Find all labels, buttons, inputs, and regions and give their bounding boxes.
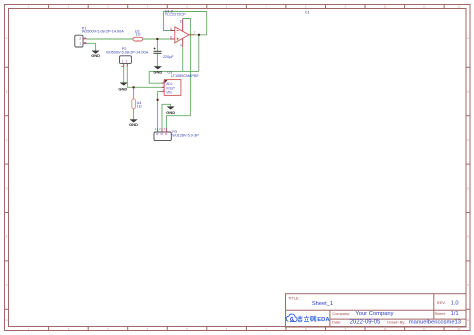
- resistor U4: [132, 99, 136, 109]
- svg-text:G: G: [6, 319, 8, 322]
- ground right of P3: [166, 107, 175, 115]
- svg-text:WJ128V-5.0-3P: WJ128V-5.0-3P: [172, 133, 199, 137]
- svg-text:EDA: EDA: [317, 317, 330, 323]
- svg-text:1Ω: 1Ω: [137, 105, 142, 109]
- wire P3 pin2 to ground: [162, 104, 171, 128]
- resistor U2: [133, 37, 143, 41]
- svg-text:GND: GND: [129, 122, 138, 127]
- wire capacitor to ground: [156, 53, 158, 66]
- svg-text:Company:: Company:: [332, 311, 350, 316]
- svg-text:GND: GND: [118, 86, 127, 91]
- ground under P1: [91, 51, 100, 58]
- svg-text:C1: C1: [305, 11, 310, 15]
- svg-text:Drawn By:: Drawn By:: [387, 319, 405, 324]
- wire feedback loop output to inverting input: [164, 12, 207, 35]
- svg-text:Sheet:: Sheet:: [435, 311, 446, 316]
- svg-text:1Ω: 1Ω: [136, 33, 141, 37]
- svg-text:WJ500V-5.08-2P-14.00A: WJ500V-5.08-2P-14.00A: [82, 30, 124, 34]
- wire P1 pin2 to resistor U2: [87, 38, 133, 40]
- svg-text:GND: GND: [91, 53, 100, 58]
- junction node at U4: [133, 86, 135, 88]
- svg-text:1.0: 1.0: [451, 301, 459, 307]
- wire op-amp pin4 down: [182, 47, 184, 72]
- svg-text:8: 8: [180, 20, 182, 24]
- ground under capacitor: [153, 66, 162, 74]
- junction node at cap: [156, 38, 158, 40]
- svg-text:LT1085CM#PBF: LT1085CM#PBF: [171, 74, 200, 78]
- wire P2 pin1 to ground: [123, 67, 125, 83]
- svg-text:GND: GND: [166, 110, 175, 115]
- glyph chuang: [311, 316, 314, 318]
- wire output to ADJ of U3: [149, 71, 199, 83]
- svg-text:D: D: [467, 187, 469, 190]
- connector P2: [120, 56, 132, 67]
- svg-text:6: 6: [170, 27, 172, 31]
- svg-text:Sheet_1: Sheet_1: [312, 301, 333, 307]
- svg-text:2022-09-05: 2022-09-05: [350, 320, 381, 326]
- title block: [286, 294, 467, 327]
- svg-text:VIN: VIN: [166, 91, 172, 95]
- wire P1 pin1 to ground: [87, 43, 96, 51]
- svg-text:D: D: [6, 187, 8, 190]
- svg-text:1: 1: [79, 42, 81, 46]
- svg-text:manuelbencosme13: manuelbencosme13: [409, 320, 461, 326]
- svg-text:G: G: [467, 319, 469, 322]
- svg-text:TLC2272CP: TLC2272CP: [165, 13, 186, 17]
- svg-text:GND: GND: [153, 69, 162, 74]
- svg-text:4: 4: [180, 43, 182, 47]
- wire op-amp pin8 to P3 pin3: [166, 19, 190, 129]
- svg-text:REV:: REV:: [437, 300, 446, 305]
- svg-text:220µF: 220µF: [163, 55, 175, 59]
- logo JLC EDA: [286, 314, 297, 322]
- ground under U4: [129, 120, 138, 127]
- svg-text:Date:: Date:: [332, 319, 341, 324]
- wire output down: [198, 35, 200, 72]
- regulator U3: [161, 80, 181, 96]
- svg-text:2: 2: [79, 37, 81, 41]
- svg-text:5: 5: [170, 36, 172, 40]
- svg-text:1/1: 1/1: [451, 311, 459, 317]
- svg-text:C: C: [6, 139, 8, 142]
- svg-text:7: 7: [194, 31, 196, 35]
- svg-text:Your Company: Your Company: [355, 311, 393, 317]
- capacitor C 220uF: [154, 48, 162, 54]
- svg-text:1: 1: [122, 60, 124, 64]
- wire U2 to op-amp +input: [143, 38, 170, 40]
- wire U3 VIN to P3 pin1: [158, 92, 162, 128]
- wire resistor U4 branch: [133, 87, 135, 99]
- svg-text:TITLE:: TITLE:: [288, 296, 300, 301]
- wire U4 to ground: [133, 109, 135, 120]
- svg-text:C: C: [467, 139, 469, 142]
- junction node at output: [198, 34, 200, 36]
- op-amp U1.2: [170, 19, 196, 48]
- ground under P2: [118, 83, 127, 92]
- connector P3: [154, 127, 171, 140]
- wire P2 pin2 to U3 VOUT: [127, 67, 161, 88]
- glyph jia: [298, 316, 303, 318]
- svg-text:2: 2: [125, 60, 127, 64]
- connector P1: [75, 35, 87, 47]
- svg-text:WJ500V-5.08-2P-14.00A: WJ500V-5.08-2P-14.00A: [106, 51, 148, 55]
- junction node at VIN: [157, 99, 159, 101]
- wire capacitor branch: [156, 39, 158, 51]
- glyph li: [304, 316, 309, 318]
